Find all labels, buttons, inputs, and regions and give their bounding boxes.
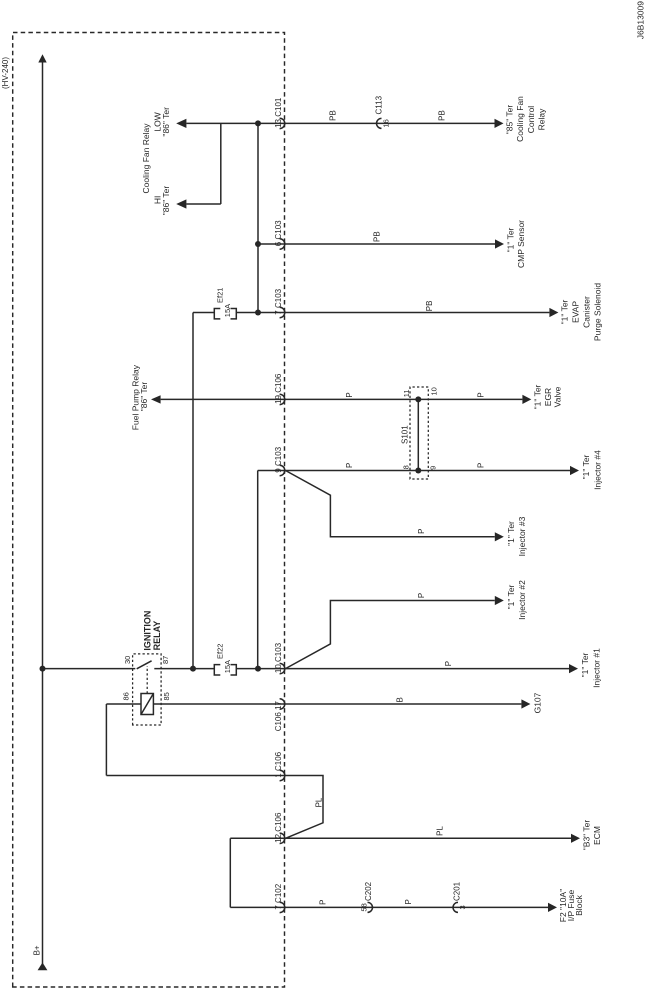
svg-text:Ef21: Ef21 <box>216 288 225 303</box>
svg-text:3: 3 <box>458 905 467 909</box>
svg-text:PB: PB <box>425 301 434 312</box>
svg-text:Canister: Canister <box>582 296 592 328</box>
svg-text:Injector #3: Injector #3 <box>517 516 527 556</box>
svg-text:EGR: EGR <box>543 388 553 406</box>
svg-text:6 C103: 6 C103 <box>274 220 283 246</box>
svg-text:S101: S101 <box>401 425 410 444</box>
svg-text:P: P <box>345 392 354 397</box>
svg-text:Injector #2: Injector #2 <box>517 580 527 620</box>
svg-text:7 C102: 7 C102 <box>274 883 283 909</box>
svg-text:PB: PB <box>329 110 338 121</box>
svg-text:"86" Ter: "86" Ter <box>161 186 171 216</box>
svg-text:Relay: Relay <box>537 108 547 130</box>
svg-text:C113: C113 <box>375 95 384 114</box>
svg-text:10: 10 <box>430 387 439 395</box>
svg-text:Block: Block <box>574 894 584 916</box>
svg-text:"86" Ter: "86" Ter <box>161 107 171 137</box>
svg-text:7 C103: 7 C103 <box>274 288 283 314</box>
svg-text:"1" Ter: "1" Ter <box>560 299 570 324</box>
svg-text:Purge Solenoid: Purge Solenoid <box>593 283 603 341</box>
svg-text:30: 30 <box>123 656 132 664</box>
svg-text:P: P <box>444 661 453 666</box>
svg-text:PL: PL <box>436 825 445 835</box>
svg-text:Ef22: Ef22 <box>216 644 225 659</box>
svg-text:C201: C201 <box>453 881 462 901</box>
svg-text:58: 58 <box>360 903 369 911</box>
svg-text:"85" Ter: "85" Ter <box>505 105 515 135</box>
svg-text:8: 8 <box>402 465 411 469</box>
svg-text:15A: 15A <box>223 660 232 673</box>
svg-text:PB: PB <box>438 110 447 121</box>
svg-text:EVAP: EVAP <box>571 301 581 323</box>
svg-text:Cooling Fan: Cooling Fan <box>515 96 525 142</box>
svg-text:RELAY: RELAY <box>152 621 162 651</box>
svg-text:9 C103: 9 C103 <box>274 446 283 472</box>
svg-text:PL: PL <box>315 797 324 807</box>
svg-text:13 C101: 13 C101 <box>274 97 283 128</box>
svg-text:CMP Sensor: CMP Sensor <box>516 220 526 268</box>
svg-text:16: 16 <box>382 119 391 127</box>
svg-text:ECM: ECM <box>592 826 602 845</box>
svg-text:10 C103: 10 C103 <box>274 642 283 673</box>
svg-text:J6B13009: J6B13009 <box>636 1 645 40</box>
svg-text:(HV-240): (HV-240) <box>1 57 10 89</box>
svg-text:"1" Ter: "1" Ter <box>506 584 516 609</box>
svg-text:B+: B+ <box>33 945 42 955</box>
svg-text:P: P <box>404 899 413 904</box>
svg-text:Injector #4: Injector #4 <box>593 450 603 490</box>
svg-text:B: B <box>396 697 405 702</box>
svg-text:9: 9 <box>429 466 438 470</box>
svg-text:19 C106: 19 C106 <box>274 373 283 404</box>
svg-text:P: P <box>477 463 486 468</box>
svg-text:"1" Ter: "1" Ter <box>506 227 516 252</box>
svg-text:Injector #1: Injector #1 <box>592 648 602 688</box>
svg-text:"1" Ter: "1" Ter <box>506 521 516 546</box>
svg-text:P: P <box>417 528 426 533</box>
svg-text:Valve: Valve <box>553 386 563 407</box>
svg-text:85: 85 <box>162 692 171 700</box>
svg-text:P: P <box>345 463 354 468</box>
svg-text:Cooling Fan Relay: Cooling Fan Relay <box>141 123 151 194</box>
svg-text:11: 11 <box>402 389 411 397</box>
svg-text:P: P <box>477 392 486 397</box>
svg-text:15A: 15A <box>223 304 232 317</box>
svg-text:1 C106: 1 C106 <box>274 751 283 777</box>
svg-text:"1" Ter: "1" Ter <box>580 652 590 677</box>
svg-text:P: P <box>319 900 328 905</box>
svg-text:Control: Control <box>526 106 536 134</box>
svg-text:C106 17: C106 17 <box>274 700 283 731</box>
svg-text:C202: C202 <box>364 881 373 901</box>
svg-text:PB: PB <box>373 231 382 242</box>
svg-text:G107: G107 <box>533 692 543 713</box>
svg-text:"1" Ter: "1" Ter <box>581 454 591 479</box>
svg-text:86: 86 <box>122 692 131 700</box>
svg-text:"1" Ter: "1" Ter <box>533 384 543 409</box>
svg-text:P: P <box>417 593 426 598</box>
svg-text:"86" Ter: "86" Ter <box>139 382 149 412</box>
svg-text:87: 87 <box>161 656 170 664</box>
svg-text:"B3" Ter: "B3" Ter <box>582 820 592 851</box>
